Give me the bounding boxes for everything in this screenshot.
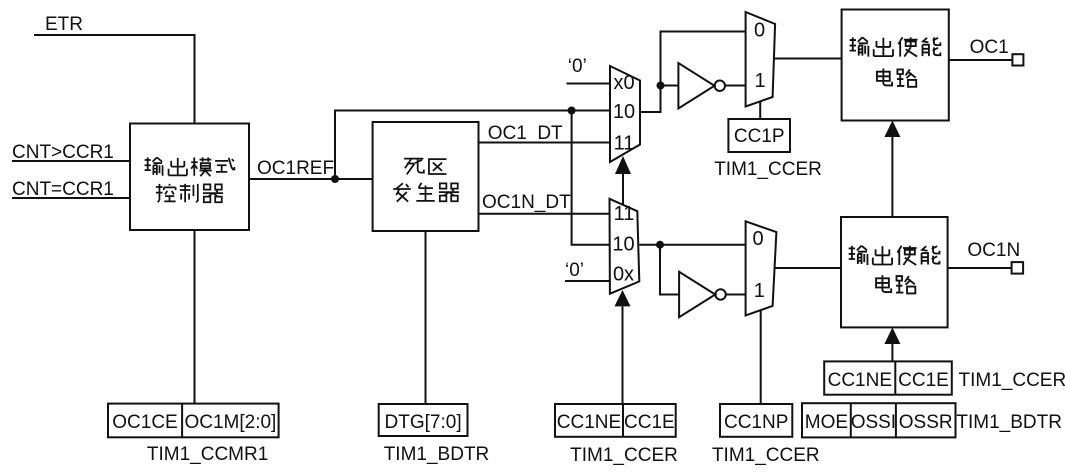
svg-text:1: 1 [754,280,765,302]
svg-text:0: 0 [754,20,765,42]
wire to inverter2 [660,245,679,295]
svg-text:CNT>CCR1: CNT>CCR1 [12,142,114,163]
junction OC1REF bypass [568,107,576,115]
arrow M1 select [615,156,631,174]
wire M3 select to CC1NE/CC1E [622,306,624,404]
svg-text:TIM1_CCER: TIM1_CCER [714,159,822,180]
dead-time generator box U2 [373,122,479,231]
inverter U3 [678,63,725,109]
junction OC1REF node [331,175,339,183]
wire to inverter1 [661,85,679,87]
wire M6 select to CC1NP [760,311,762,405]
output enable circuit box U5 [842,10,949,121]
arrow M3 select [615,290,631,306]
register CC1NE CC1E lower [555,404,676,437]
wire '0' upper [567,83,611,85]
register CC1NP [720,404,792,437]
svg-text:‘0’: ‘0’ [568,56,587,77]
junction inverter1 tap [657,82,665,90]
output mode controller box U1 [130,124,249,231]
wire CNT>CCR1 [12,160,130,162]
pad OC1N [1012,262,1024,274]
junction inverter2 tap [656,241,664,249]
register CC1NE CC1E upper [824,361,952,394]
wire OC1_DT [479,142,611,144]
svg-text:11: 11 [614,203,635,225]
pad OC1 [1012,54,1023,65]
svg-text:TIM1_BDTR: TIM1_BDTR [956,412,1062,433]
svg-text:OC1M[2:0]: OC1M[2:0] [184,412,276,433]
wire CNT=CCR1 [12,197,130,199]
svg-text:CC1NE: CC1NE [557,412,621,433]
wire OC1REF to lower mux input 10 [572,111,610,245]
wire M2 output [774,58,842,60]
wire inverter2 to polarity mux input 1 [726,294,746,296]
svg-text:OSSI: OSSI [851,412,896,433]
svg-text:OC1N_DT: OC1N_DT [482,192,571,213]
output enable circuit box U6 [841,217,948,327]
inverter U4 [679,272,726,317]
svg-text:CC1NP: CC1NP [724,412,788,433]
wire OC1N_DT [479,213,610,215]
wire M3 output to polarity mux input 0 [639,244,745,246]
svg-text:MOE: MOE [805,412,848,433]
wire M6 output [775,267,842,269]
wire inverter1 to polarity mux input 1 [725,85,746,87]
polarity mux M2 [746,12,776,107]
svg-text:0: 0 [752,228,763,250]
svg-text:0x: 0x [613,264,634,286]
svg-text:x0: x0 [613,72,634,94]
wire OC1 output [949,59,1013,61]
wire M2 select to CC1P [759,102,761,120]
wire M1 output to polarity mux input 0 [640,32,746,113]
polarity mux M6 [746,221,777,315]
svg-text:TIM1_BDTR: TIM1_BDTR [384,444,490,465]
svg-text:10: 10 [612,234,634,256]
svg-text:CC1NE: CC1NE [828,370,892,391]
svg-text:TIM1_CCER: TIM1_CCER [712,445,820,466]
svg-text:OC1N: OC1N [967,240,1020,261]
mux M3 lower 3-input [610,199,640,294]
wire enable2 link [891,344,893,361]
svg-text:1: 1 [754,70,765,92]
wire DTG to BDTR register [425,231,427,404]
arrow enable link [884,121,900,138]
wire OC1REF [249,178,373,180]
wire controller to CCMR register [194,230,196,404]
svg-text:OC1_DT: OC1_DT [488,123,563,144]
svg-text:CNT=CCR1: CNT=CCR1 [12,179,114,200]
arrow enable2 link [884,327,900,344]
wire M1 select stub [622,174,624,204]
mux M1 upper 3-input [610,66,640,162]
svg-text:CC1E: CC1E [898,370,949,391]
wire OC1N output [948,267,1012,269]
svg-text:TIM1_CCMR1: TIM1_CCMR1 [147,444,268,465]
register MOE OSSI OSSR [802,403,956,437]
wire enable link U6 to U5 [891,137,893,217]
wire OC1REF bypass riser [335,111,610,180]
svg-text:OSSR: OSSR [899,412,953,433]
svg-text:OC1REF: OC1REF [257,158,334,179]
register CC1P [728,119,790,152]
svg-text:CC1P: CC1P [734,126,785,147]
register OC1CE OC1M [108,404,279,438]
register DTG [379,404,468,436]
svg-text:TIM1_CCER: TIM1_CCER [959,370,1065,391]
svg-text:10: 10 [613,101,635,123]
svg-text:TIM1_CCER: TIM1_CCER [570,445,678,466]
wire '0' lower [565,280,610,282]
svg-text:CC1E: CC1E [624,412,675,433]
svg-text:11: 11 [614,133,635,155]
svg-text:OC1CE: OC1CE [112,412,177,433]
svg-text:DTG[7:0]: DTG[7:0] [385,412,462,433]
svg-text:‘0’: ‘0’ [565,260,584,281]
svg-text:OC1: OC1 [970,37,1009,58]
svg-text:ETR: ETR [45,14,83,35]
wire ETR [34,35,195,124]
